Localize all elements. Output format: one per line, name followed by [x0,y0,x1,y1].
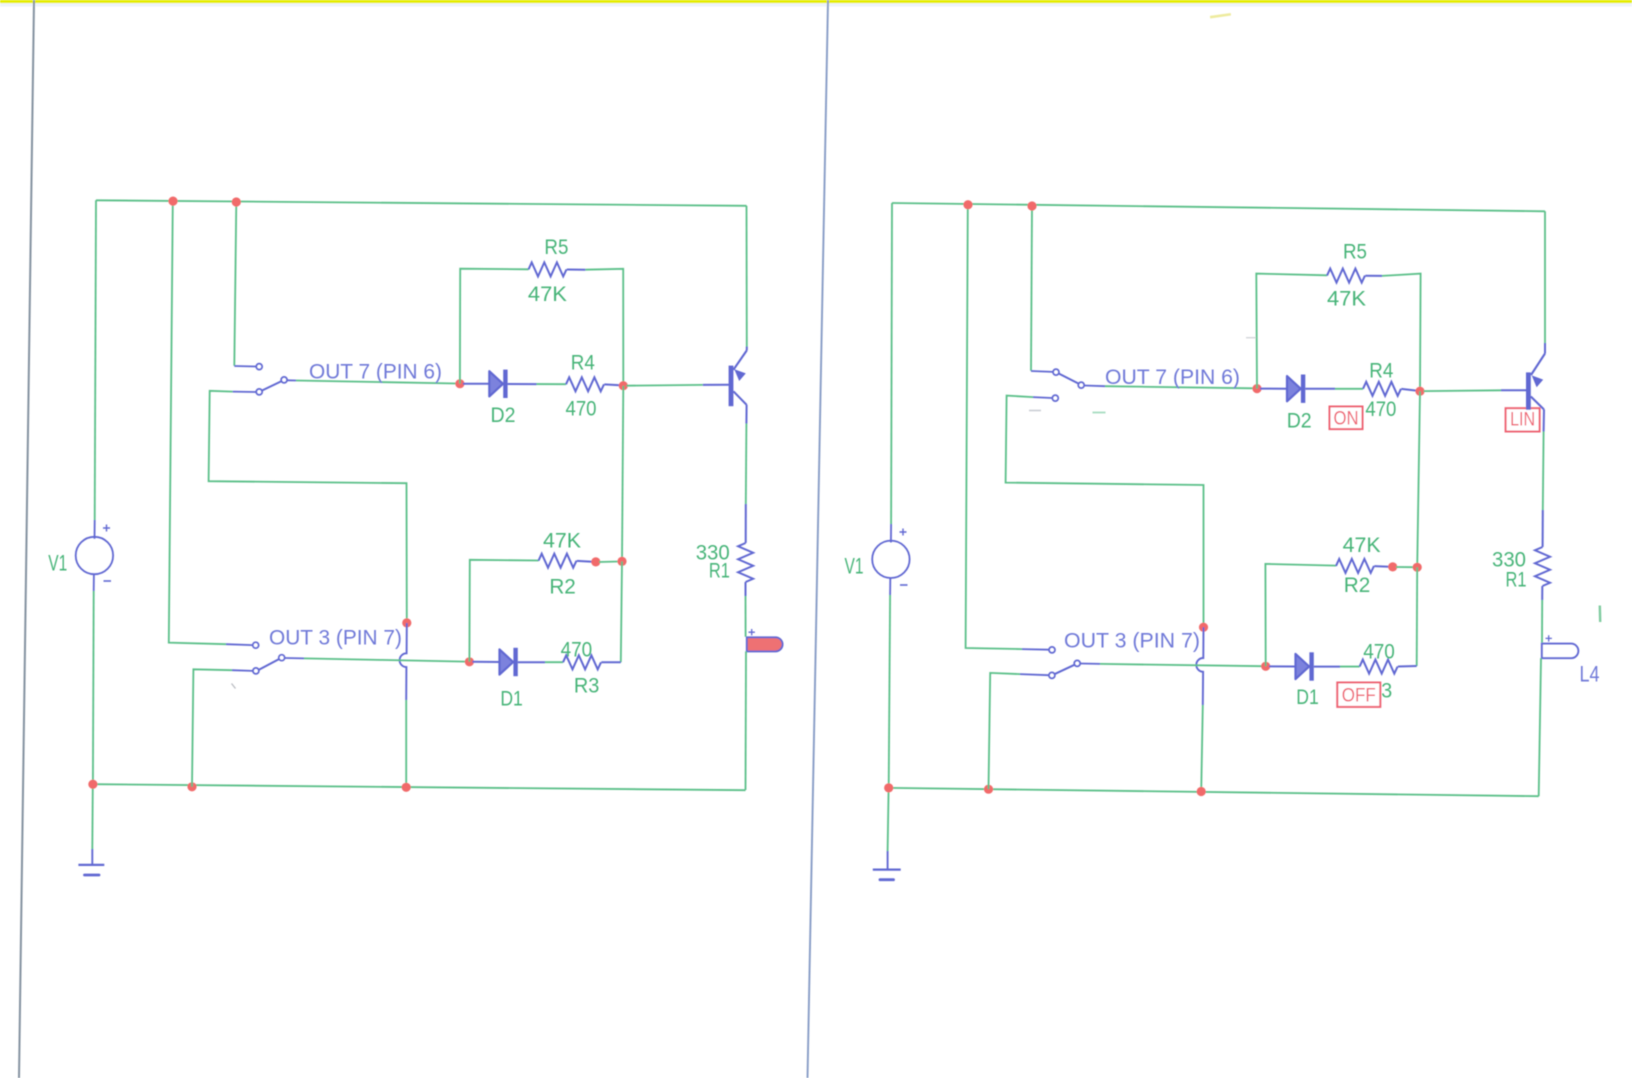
junction dot: OUT7/D2/R5 node (right) [1252,384,1261,393]
grey scan fleck below SW2 (left) [232,684,236,689]
junction dot: OUT3/D1/R2 node (left) [465,657,474,666]
junction dot: R2 right lead (left) [591,557,600,566]
wire: right circuit left rail (V+ to V1) [890,203,893,524]
switch SW2 (left) pivot contact [279,655,285,661]
wire: V1 (right) to bottom rail [889,595,890,788]
transistor Q2 (right) emitter line [1531,354,1545,376]
switch SW1 (left) upper contact [256,364,262,370]
lead: R1 top (left) [745,504,747,543]
stray green mark right of lamp (right) [1599,606,1602,623]
lead: R3 right (left) [601,661,621,663]
junction dot: bottom rail centre (right) [1197,787,1206,796]
resistor R5 (right) zigzag [1327,269,1365,283]
svg-text:OUT 7 (PIN 6): OUT 7 (PIN 6) [1105,365,1240,389]
wire: SW1 lower contact to OUT3 node (left) [209,391,407,623]
lamp L4 (right) body [1542,644,1579,659]
yellow smudge top right [1210,13,1231,18]
voltage source V1 (right) circle [872,541,909,578]
resistor R4 (right) zigzag [1363,382,1401,396]
junction dot: OUT3 node above hop (left) [402,618,411,627]
lead: D1 anode (left) [472,661,499,663]
wire: left circuit bottom ground rail [93,784,746,790]
svg-text:47K: 47K [543,529,581,552]
wire: R2 dot to corner dot (left) [599,561,619,564]
lead: Q1 collector stub down (left) [745,405,747,424]
state box OFF (right) [1337,683,1380,707]
switch SW3 (right) arm: closed to upper contact [1059,374,1079,384]
switch SW3 (right) pivot contact [1078,382,1084,388]
ground symbol (left) stem [91,849,93,865]
wire: SW2 pivot to D1 (OUT 3 net, left) [285,657,304,659]
V1 (right) + polarity mark [900,529,907,536]
lead: Q1 emitter stub up (left) [746,347,748,351]
svg-text:LIN: LIN [1510,410,1535,431]
V1 (right) - polarity mark [900,584,908,586]
junction dot: top rail / OUT7 column (right) [1027,201,1036,210]
transistor Q1 (left) emitter line [733,350,746,369]
junction dot: OUT3/D1/R2 node (right) [1261,662,1270,671]
lead: R3 right (right) [1398,665,1417,668]
svg-text:470: 470 [1365,398,1396,421]
resistor R4 (left) zigzag [566,377,604,391]
lead: R1 bottom (right) [1541,586,1543,600]
wire: base node to transistor Q1 (left) [626,384,703,387]
wire: ground stem (left) [91,784,94,849]
wire: R5 loop right vertical (left) [585,269,623,386]
wire: right circuit bottom ground rail [889,788,1539,796]
state box ON (right) [1330,407,1363,430]
wire: top rail to OUT7 switch column (left) [234,202,236,366]
svg-text:R4: R4 [571,351,595,374]
lead: D2 anode (left) [463,383,489,385]
junction dot: R2 right lead (right) [1388,562,1397,571]
switch SW4 (right) pivot contact [1074,660,1080,666]
svg-text:47K: 47K [528,283,567,306]
wire: hop vertical to bottom rail (left) [405,700,407,787]
svg-text:R4: R4 [1369,360,1393,383]
svg-text:R5: R5 [1343,241,1367,264]
lamp + mark (left) [749,629,755,635]
wire: OUT3 node vertical with hop over wire (left) [400,623,407,700]
wire: ground stem (right) [888,788,889,851]
lead: SW3 lower contact stub (right) [1033,396,1052,399]
switch SW1 (left) lower contact [256,389,262,395]
lead: V1 top stub (left) [94,520,96,539]
lamp + mark (right) [1546,635,1552,641]
svg-text:D1: D1 [1296,686,1319,709]
svg-text:OUT 3 (PIN 7): OUT 3 (PIN 7) [269,625,402,649]
diode D2 (right) [1287,375,1305,403]
lamp L1 (left, lit) body [747,637,783,651]
lead: D2 anode (right) [1260,388,1287,390]
lead: R1 top (right) [1542,510,1544,547]
junction dot: top rail / OUT3 column (right) [963,200,972,209]
switch SW1 (left) pivot contact [281,377,287,383]
lead: OUT3 switch upper contact (right) [1022,648,1049,651]
lead: OUT7 switch upper contact (right) [1031,370,1053,373]
wire: OUT3 node vertical with hop over wire (right) [1196,627,1203,705]
lead: R4 right (right) [1401,389,1416,391]
junction dot: V1-/ground node (left) [88,780,97,789]
svg-text:R3: R3 [574,674,600,697]
wire: R2 loop left+top (left) [469,560,538,662]
lead: D2 cathode to R4 (left) [508,383,537,385]
lead: R5 right (right) [1365,275,1382,277]
svg-text:47K: 47K [1343,534,1381,557]
lead: D1 cathode to R3 (left) [518,661,545,663]
switch SW4 (right) upper contact [1049,647,1055,653]
V1 (left) + polarity mark [103,525,110,532]
wire: lamp to bottom rail (left) [745,651,748,790]
svg-text:R2: R2 [1344,574,1371,597]
svg-text:V1: V1 [48,550,67,575]
svg-text:D2: D2 [1287,409,1312,432]
lead: D1 anode (right) [1269,665,1296,667]
svg-text:47K: 47K [1327,288,1366,311]
wire: SW2 lower contact to bottom rail (left) [192,669,232,787]
junction dot: OUT7/D2/R5 node (left) [455,379,464,388]
wire: SW3 lower contact to OUT3 node (right) [1006,396,1204,627]
resistor R1 (left) vertical zigzag [738,543,753,582]
junction dot: OUT3 node above hop (right) [1199,623,1208,632]
wire: R1 to lamp (right) [1541,600,1543,643]
lead: V1 bottom stub (right) [889,578,891,595]
transistor Q2 (right) base bar [1526,372,1531,409]
resistor R3 (right) zigzag [1360,660,1398,674]
lead: R2 right (left) [577,560,593,563]
wire: R5 feedback loop left+top (right) [1256,274,1327,389]
transistor Q1 (left) collector line [733,391,746,405]
lead: R2 right (right) [1374,565,1389,568]
junction dot: bottom rail / SW4 return (right) [984,785,993,794]
ground symbol (left) lower bar [85,874,100,877]
wire: base node to transistor Q2 (right) [1424,389,1502,392]
resistor R1 (right) vertical zigzag [1535,547,1550,586]
wire: left circuit left rail (V+ to V1) [95,200,96,520]
wire: top rail to OUT7 switch column (right) [1031,206,1032,371]
wire: R2 dot to corner dot (right) [1396,566,1414,568]
lead: SW2 lower stub (left) [232,669,253,672]
svg-text:ON: ON [1334,407,1359,429]
wire: right circuit top supply rail [892,203,1545,211]
wire: lamp to bottom rail (right) [1539,658,1541,796]
svg-text:OUT 7 (PIN 6): OUT 7 (PIN 6) [309,359,442,383]
svg-text:V1: V1 [845,554,864,579]
lead: SW1 lower contact stub (left) [233,391,256,393]
wire: R5 loop right vertical (right) [1382,274,1421,392]
left page edge line [19,0,34,1078]
svg-text:R5: R5 [544,236,568,259]
transistor Q2 (right) collector line [1531,397,1544,410]
svg-text:OFF: OFF [1342,684,1376,706]
lead: R4 right (left) [604,383,620,386]
wire: SW3 pivot to D2 (OUT 7 net, right) [1084,385,1105,388]
lead: Q2 emitter stub up (right) [1544,343,1546,354]
transistor Q1 (left) base bar [729,366,734,407]
wire: left circuit top supply rail [96,200,747,206]
switch SW2 (left) arm to lower contact [259,659,279,670]
svg-text:470: 470 [566,397,597,420]
junction dot: R2/R3 right node (left) [617,557,626,566]
wire: R2/R3 right vertical (left) [621,561,622,662]
wire: SW1 pivot to D2 (OUT 7 net, left) [287,379,296,381]
svg-text:470: 470 [1363,640,1395,663]
diode D1 (right) [1296,652,1314,680]
state box LIN (right) [1506,408,1540,431]
switch SW4 (right) lower contact [1049,672,1055,678]
junction dot: R4/R5/base node (right) [1415,387,1424,396]
resistor R5 (left) zigzag [529,262,567,276]
faint grey dash above D2 (right) [1246,337,1256,339]
wire: Q2 emitter to top rail (right) [1544,211,1546,343]
wire: Q2 collector to R1 (right) [1542,432,1545,511]
wire: Q1 collector to R1 (left) [745,424,748,505]
lead: D1 cathode to R3 (right) [1314,666,1340,668]
wire: hop vertical to bottom rail (right) [1201,705,1203,792]
diode D2 (left) [489,370,507,398]
switch SW1 (left) arm to lower contact [262,381,282,391]
transistor Q1 (left) emitter arrow [734,369,746,381]
svg-text:D2: D2 [491,404,516,427]
junction dot: top rail / OUT7 column (left) [232,197,241,206]
resistor R3 (left) zigzag [563,655,601,669]
junction dot: R4/R5/base node (left) [619,381,628,390]
ground symbol (left) top bar [78,864,104,866]
wire: V1 (left) to bottom rail [92,591,95,784]
transistor Q2 (right) emitter arrow [1532,375,1544,387]
V1 (left) - polarity mark [104,580,112,582]
junction dot: R2/R3 right node (right) [1413,563,1422,572]
wire: SW4 pivot to D1 (OUT 3 net, right) [1080,663,1100,665]
svg-text:L4: L4 [1580,662,1600,687]
svg-text:OUT 3 (PIN 7): OUT 3 (PIN 7) [1064,628,1200,652]
lead: R1 bottom (left) [745,582,747,596]
wire: R2/R3 right vertical (right) [1416,567,1419,666]
wire: SW4 lower contact to bottom rail (right) [989,673,1021,789]
lead: D2 cathode to R4 (right) [1305,388,1335,390]
wire: Q1 emitter to top rail (left) [746,206,748,347]
lead: R5 right (left) [567,269,586,271]
ground symbol (right) stem [887,851,889,869]
ground symbol (right) top bar [873,868,901,870]
junction dot: top rail / OUT3 column (left) [168,197,177,206]
junction dot: bottom rail centre (left) [402,783,411,792]
svg-text:470: 470 [561,638,593,661]
switch SW3 (right) upper contact [1053,369,1059,375]
wire: base node down to R2/R3 node (left) [622,386,623,562]
lead: OUT3 switch upper contact (left) [226,643,253,646]
lead: V1 top stub (right) [890,524,892,543]
wire: R5 feedback loop left+top (left) [460,269,529,384]
middle page edge line [808,0,829,1078]
pale blue band under yellow strip [0,3,1632,6]
lead: V1 bottom stub (left) [93,574,95,591]
faint scan dashes under SW3 (right) [1029,410,1041,412]
yellow scanner strip at top [0,0,1632,3]
svg-text:R1: R1 [709,560,730,583]
switch SW2 (left) upper contact [253,642,259,648]
svg-text:D1: D1 [500,688,523,711]
wire: R1 to lamp (left) [745,596,747,637]
diode D1 (left) [500,648,518,676]
switch SW4 (right) arm to lower contact [1054,665,1074,675]
wire: top rail to OUT3 switch column (left) [169,201,226,644]
wire: top rail to OUT3 switch column (right) [966,205,1022,649]
lead: SW4 lower stub (right) [1020,674,1049,675]
resistor R2 (left) zigzag [539,554,577,568]
ground symbol (right) lower bar [880,878,894,881]
svg-text:R2: R2 [549,575,576,598]
voltage source V1 (left) circle [76,537,113,574]
switch SW3 (right) lower contact [1052,395,1058,401]
svg-text:R1: R1 [1506,568,1527,591]
junction dot: V1-/ground node (right) [884,783,893,792]
wire: R2 loop left+top (right) [1265,564,1336,666]
switch SW2 (left) lower contact [253,668,259,674]
junction dot: bottom rail / SW2 return (left) [187,782,196,791]
lead: Q2 collector stub down (right) [1543,410,1545,432]
wire: base node down to R2/R3 node (right) [1417,391,1420,567]
resistor R2 (right) zigzag [1336,559,1374,573]
lead: OUT7 switch upper contact (left) [234,365,256,368]
